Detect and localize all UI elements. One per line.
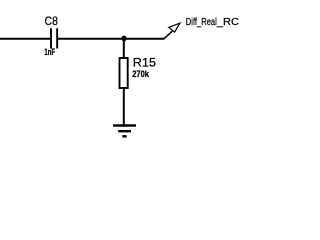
ground bbox=[113, 126, 136, 137]
junction node dot bbox=[121, 36, 127, 42]
wire from resistor down to ground bbox=[123, 88, 125, 125]
svg-text:270k: 270k bbox=[132, 69, 150, 79]
resistor R15 (box) bbox=[120, 58, 128, 88]
ground bar 2 bbox=[118, 130, 131, 132]
svg-text:1nF: 1nF bbox=[44, 47, 55, 57]
svg-text:Diff_Real: Diff_Real bbox=[186, 17, 217, 28]
svg-text:R15: R15 bbox=[133, 56, 157, 70]
svg-text:C8: C8 bbox=[45, 14, 59, 28]
wire from junction down to resistor bbox=[123, 39, 125, 58]
wire from capacitor to arrow corner bbox=[58, 38, 164, 40]
left plate bbox=[50, 28, 52, 48]
right plate bbox=[56, 28, 58, 48]
ground bar 3 bbox=[122, 135, 126, 137]
svg-text:_RC: _RC bbox=[216, 17, 239, 28]
port arrow head (open) bbox=[169, 23, 180, 32]
wire left segment into capacitor bbox=[0, 38, 50, 40]
wire arrow shaft diagonal bbox=[164, 31, 173, 39]
ground bar 1 bbox=[113, 124, 136, 126]
capacitor C8 bbox=[51, 28, 57, 48]
